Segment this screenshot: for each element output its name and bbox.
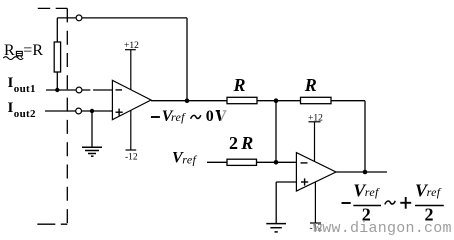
svg-text:I: I <box>8 100 14 116</box>
node dot 2R/feedback junction <box>274 160 279 165</box>
node dot between R1 R2 <box>274 98 279 103</box>
svg-text:www.diangon.com: www.diangon.com <box>313 220 452 237</box>
wire U2 output <box>336 171 387 173</box>
resistor Rfz body <box>54 42 60 72</box>
op-amp U2 <box>296 153 336 191</box>
wire top feedback vertical <box>186 18 188 101</box>
label Iout1 <box>8 75 36 95</box>
terminal circle Iout2 <box>76 108 82 114</box>
resistor R1 body <box>227 97 257 103</box>
label -Vref ~ 0V <box>151 108 227 125</box>
U2 +12 supply <box>308 114 323 162</box>
wire Iout2 <box>45 110 112 112</box>
svg-text:ref: ref <box>365 185 380 199</box>
terminal circle Iout1 <box>76 87 82 93</box>
node dot Rfz/Iout1 junction <box>55 88 59 92</box>
label Rfz=R <box>3 42 43 60</box>
wire U2 feedback vertical <box>364 101 366 172</box>
wire R2 to feedback corner <box>331 100 365 102</box>
label Iout2 <box>8 100 36 120</box>
U1 -12 supply <box>125 110 138 162</box>
resistor R2 body <box>301 97 332 103</box>
svg-text:ref: ref <box>182 152 197 166</box>
dashed feedback box right edge <box>66 8 68 224</box>
svg-text:=R: =R <box>23 42 43 59</box>
wire Iout1 <box>46 89 90 91</box>
wire U1 output run <box>151 100 227 102</box>
wire top feedback horizontal <box>57 17 187 19</box>
U1 minus input sign <box>116 89 123 91</box>
wire Vref to 2R <box>207 161 227 163</box>
node dot Iout2/ground junction <box>90 109 94 113</box>
dashed feedback box bottom edge <box>37 223 68 225</box>
U2 plus input sign <box>301 178 308 185</box>
wire Rfz bottom lead <box>56 72 58 90</box>
wire between R1 and R2 <box>257 100 301 102</box>
U2 minus input sign <box>301 162 308 164</box>
label Vref input <box>172 150 197 167</box>
svg-text:I: I <box>8 75 14 91</box>
svg-text:out1: out1 <box>14 83 36 95</box>
wire U2 plus input <box>276 181 296 183</box>
node dot feedback/output <box>185 98 190 103</box>
wire ground lead U1 <box>91 111 93 147</box>
svg-text:R: R <box>304 75 317 95</box>
svg-text:2: 2 <box>229 133 238 153</box>
ground symbol U1 <box>82 147 102 156</box>
op-amp U1 <box>112 80 151 119</box>
dashed feedback box top edge <box>38 7 68 9</box>
svg-text:ref: ref <box>427 185 442 199</box>
wire Rfz top lead <box>56 18 58 42</box>
wire 2R to U2 minus input <box>257 161 297 163</box>
svg-text:-12: -12 <box>125 153 138 163</box>
label 2R <box>229 133 253 153</box>
node dot U2 output/feedback <box>363 170 368 175</box>
U1 +12 supply <box>124 41 139 90</box>
svg-text:ref: ref <box>171 110 186 124</box>
svg-text:R: R <box>240 133 253 153</box>
terminal circle on top wire <box>76 15 82 21</box>
wire node to 2R line vertical <box>275 101 277 163</box>
ground symbol U2 <box>266 224 286 232</box>
U2 -12 supply <box>310 182 323 234</box>
label -Vref/2 ~ +Vref/2 <box>342 181 444 225</box>
wire U2 ground lead <box>275 182 277 223</box>
U1 plus input sign <box>116 109 123 116</box>
resistor 2R body <box>227 159 257 165</box>
svg-text:0: 0 <box>206 108 214 125</box>
svg-text:R: R <box>233 75 246 95</box>
svg-text:out2: out2 <box>14 108 36 120</box>
